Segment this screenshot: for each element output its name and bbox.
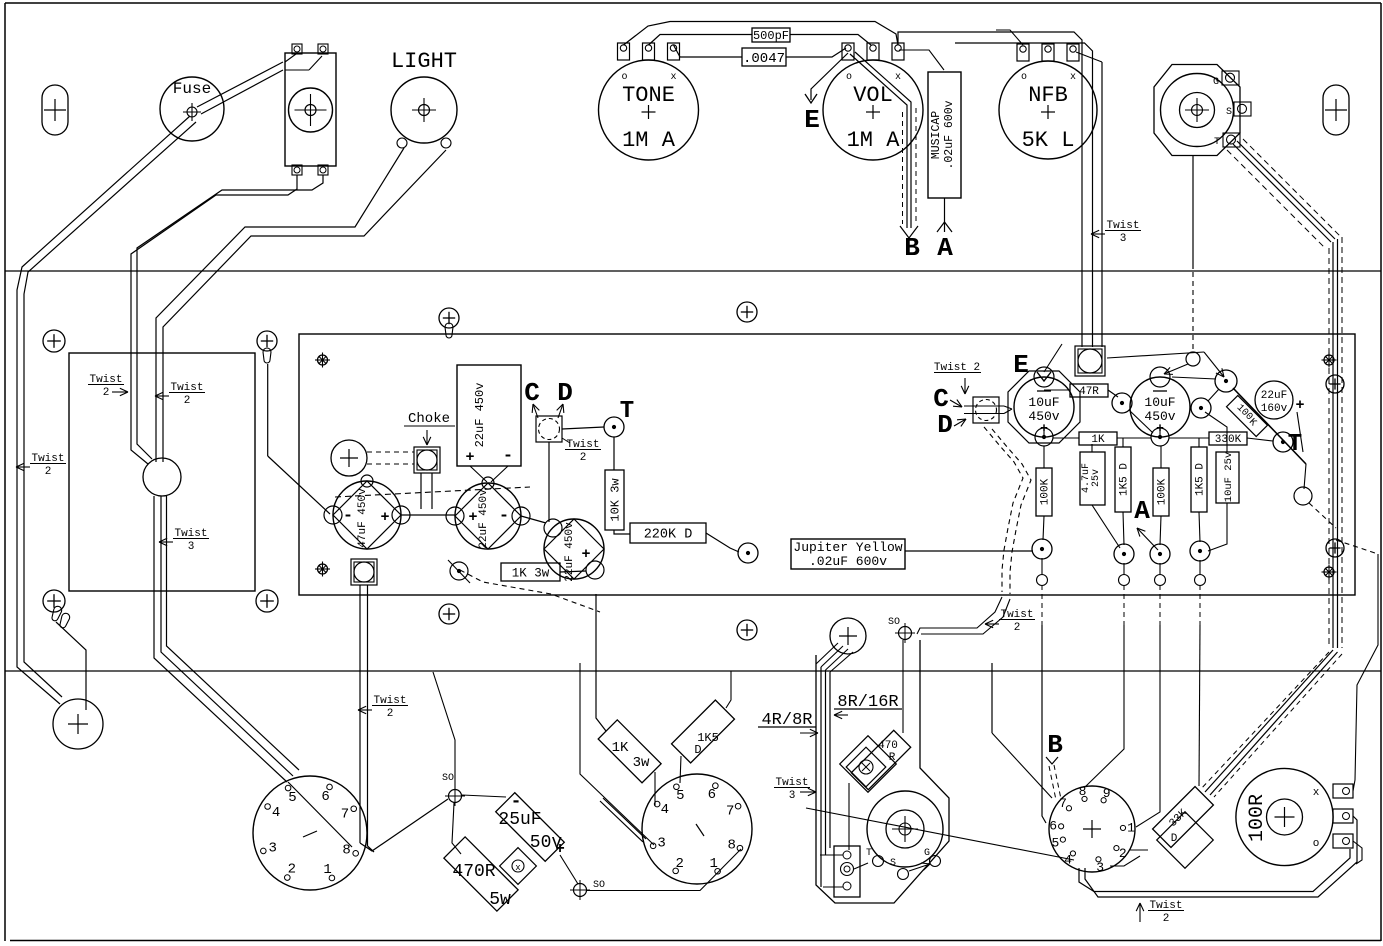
choke leads down (420, 473, 422, 509)
svg-text:A: A (1134, 496, 1150, 526)
wire fuse to mains pair going down-left (17, 116, 190, 704)
V2 pin 5 (674, 784, 680, 790)
svg-text:10K 3w: 10K 3w (609, 478, 623, 522)
svg-text:C: C (524, 378, 540, 408)
resistor 470R diagonal at pilot (851, 730, 910, 789)
svg-text:5: 5 (676, 788, 684, 804)
filter capacitor 47uF 450v (333, 481, 401, 549)
V1 pin 5 (285, 785, 291, 791)
standoff below board left (439, 604, 459, 624)
svg-text:SO: SO (593, 880, 605, 891)
wire switch left-top leads (285, 54, 296, 62)
wire CD square to 10uF cap (1004, 406, 1012, 409)
svg-text:x: x (670, 72, 676, 83)
pilot light terminals (397, 138, 407, 148)
resistor 1K (1079, 432, 1117, 445)
SO solder lug middle (899, 627, 912, 640)
lug of VOL pot (892, 43, 904, 60)
wire NFB lug3 down bundle (1076, 52, 1102, 62)
svg-text:+: + (1295, 397, 1304, 414)
svg-text:100R: 100R (1246, 794, 1269, 842)
svg-text:+: + (468, 509, 477, 526)
100R lug 1 (1333, 784, 1353, 798)
wire junction to T via 100K (1233, 388, 1306, 464)
svg-text:330K: 330K (1215, 434, 1242, 446)
svg-text:E: E (804, 105, 820, 135)
tube socket V3 nine pin (1049, 786, 1135, 872)
wire 1K to third cap terminal (560, 571, 586, 572)
wire grommet NFB bundle square (1075, 346, 1105, 376)
twisted pair C D dashed run (984, 427, 1023, 592)
svg-text:47uF 450v: 47uF 450v (357, 488, 369, 548)
capacitor 10uF 25v (1216, 452, 1239, 503)
wire grommet to tube socket V1 triple (154, 496, 287, 782)
V2 pin 4 (654, 801, 660, 807)
wire TONE lug2 to 500pF (649, 35, 684, 46)
mounting square with screw between (500, 848, 537, 885)
fuse holder F1 (160, 77, 224, 141)
svg-text:1: 1 (1127, 821, 1135, 836)
TONE potentiometer 1M A (599, 60, 699, 160)
wire cap1 to cap2 bottom row (1043, 428, 1045, 438)
wire V2 to bottom-left pair (600, 801, 643, 842)
svg-text:T: T (1214, 137, 1220, 148)
SO solder lug 2 (574, 884, 587, 897)
svg-text:G: G (924, 848, 930, 859)
svg-text:-: - (343, 507, 353, 526)
filter capacitor 22uF 450v (455, 483, 521, 549)
board corner screw top-left (318, 355, 328, 365)
wire switch bottom pair to transformer (131, 175, 297, 464)
resistor 100K diagonal (1226, 395, 1267, 436)
wire 10K to 220K (614, 530, 630, 534)
wire grommet to 10uF cap1 with arrow (1044, 344, 1062, 372)
power transformer mounting screw bottom-right (256, 590, 278, 612)
svg-text:Jupiter Yellow: Jupiter Yellow (793, 540, 902, 555)
wire 47R to junction (1044, 389, 1070, 391)
svg-text:3w: 3w (633, 755, 650, 771)
svg-text:-: - (511, 792, 522, 812)
svg-text:22uF 450v: 22uF 450v (473, 383, 487, 448)
terminal C D square right board (973, 397, 999, 423)
lug of NFB pot (1042, 44, 1054, 61)
wire CD square to T (562, 427, 604, 429)
svg-text:o: o (846, 72, 852, 83)
dashed jack sleeve wire below divider (1192, 272, 1194, 352)
svg-text:o: o (621, 72, 627, 83)
svg-text:6: 6 (1049, 819, 1057, 834)
svg-text:25uF: 25uF (498, 810, 541, 830)
wire 22uF 160v lead (1297, 412, 1303, 452)
V1 key mark (303, 831, 317, 837)
chassis / rear panel divider line (5, 670, 1381, 672)
V1 pin 8 (353, 851, 359, 857)
wire SO2 heater run right (587, 849, 741, 891)
solder terminal below divider left (53, 699, 103, 749)
jack terminal G (1222, 71, 1239, 85)
svg-text:.0047: .0047 (743, 51, 785, 67)
wire TONE lug3 to .0047 (674, 45, 743, 57)
svg-text:25v: 25v (1091, 469, 1102, 487)
resistor 1K 3w diagonal near V2 (598, 720, 661, 783)
lug of VOL pot (842, 43, 854, 60)
svg-text:10uF 25v: 10uF 25v (1223, 452, 1235, 502)
svg-text:S: S (890, 858, 896, 869)
wire 1K5 leads (680, 756, 681, 783)
mounting bracket diamond 470R (840, 736, 897, 793)
power switch terminal (292, 44, 302, 54)
svg-text:7: 7 (1059, 796, 1067, 811)
svg-text:10uF: 10uF (1144, 395, 1175, 410)
V3 pin 5 (1060, 837, 1065, 842)
svg-text:1: 1 (709, 856, 717, 872)
svg-text:D: D (557, 378, 573, 408)
svg-text:100K: 100K (1157, 478, 1169, 505)
V1 pin 4 (265, 804, 271, 810)
svg-text:4: 4 (272, 805, 280, 821)
100R lug 3 (1333, 834, 1353, 848)
jack plate rect (834, 846, 860, 897)
svg-text:47R: 47R (1079, 386, 1099, 398)
speaker wire bundle 4R/8R (820, 667, 822, 887)
wire 22uF box leads to cap below (470, 466, 487, 482)
resistor 1K5 D diagonal near V2 (672, 700, 735, 763)
capacitor 500pF label box (752, 28, 790, 42)
wire bundle to jack plate (820, 854, 843, 856)
dashed pair terminal to choke (367, 451, 414, 453)
junction terminal T on board (604, 417, 624, 437)
pilot lamp assembly plate outline (816, 640, 949, 903)
svg-text:4: 4 (1064, 853, 1072, 868)
V1 pin 2 (285, 875, 291, 881)
svg-text:2: 2 (1163, 913, 1170, 925)
board corner screw bottom-right (1324, 567, 1334, 577)
svg-text:Fuse: Fuse (173, 80, 211, 98)
output attenuator 100R pot (1236, 768, 1333, 865)
V2 pin 8 (737, 845, 743, 851)
svg-text:TONE: TONE (622, 83, 675, 108)
svg-text:G: G (1213, 77, 1219, 88)
V3 pin 1 (1120, 825, 1125, 830)
dashed bias wire (460, 570, 600, 612)
power transformer mounting screw top-right (257, 331, 277, 351)
svg-text:T: T (1288, 431, 1302, 458)
capacitor 4.7uF 25v (1080, 452, 1105, 505)
wire pilot light pair to transformer (156, 148, 404, 462)
svg-text:2: 2 (676, 856, 684, 872)
wire 22uF to third cap (521, 516, 546, 523)
svg-text:1K5 D: 1K5 D (1119, 463, 1131, 496)
board corner screw bottom-left (318, 564, 328, 574)
wire standoff to 47uF terminal (267, 364, 269, 456)
svg-text:-: - (503, 447, 513, 466)
heater pair from grommet down to V1 area (359, 585, 361, 843)
svg-text:SO: SO (888, 617, 900, 628)
wire holes below junctions (1037, 575, 1048, 586)
standoff above board (439, 308, 459, 328)
pilot terminal S (898, 869, 909, 880)
V3 pin 9 (1101, 798, 1106, 803)
wire .0047 to VOL lug1 (786, 48, 846, 57)
twisted pair VOL to node B (850, 54, 907, 228)
filter capacitor 22uF 450v second (544, 519, 604, 579)
svg-text:T: T (866, 848, 872, 859)
V3 pin 4 (1070, 851, 1075, 856)
power transformer outline (69, 353, 255, 591)
wire TONE lug1 to VOL lug3 top run (624, 22, 899, 46)
lug of TONE pot (618, 43, 630, 60)
svg-text:o: o (1313, 838, 1320, 850)
svg-text:6: 6 (708, 787, 716, 803)
wire jupiter to 100K junction (905, 550, 1033, 552)
V1 pin 7 (351, 806, 357, 812)
svg-text:9: 9 (1103, 786, 1111, 801)
standoff below board right (737, 620, 757, 640)
power transformer mounting screw top-left (43, 330, 65, 352)
V2 pin 6 (713, 783, 719, 789)
capacitor MUSICAP .02uF 600v (928, 72, 961, 198)
capacitor 10uF 450v second (1130, 377, 1190, 437)
standoff crimp (445, 323, 453, 338)
svg-text:1: 1 (323, 862, 331, 878)
jack terminal S (1234, 102, 1251, 116)
V2 key mark (696, 824, 704, 836)
svg-text:3: 3 (789, 790, 796, 802)
wire pilot S to G (909, 864, 930, 871)
svg-text:470R: 470R (452, 862, 495, 882)
svg-text:8: 8 (1079, 784, 1087, 799)
wire 100R lug3 to bottom run (1353, 841, 1362, 864)
wire T to 10K resistor (613, 437, 615, 470)
wire feeder to V2 pin 3 (580, 663, 654, 845)
svg-text:3: 3 (1120, 233, 1127, 245)
svg-text:+: + (465, 449, 474, 466)
wire jack sleeve down (1192, 156, 1194, 270)
front panel / chassis divider line (5, 270, 1381, 272)
choke mounting square (414, 447, 440, 473)
resistor 470R 5w diagonal (444, 837, 518, 911)
wire CD terminal to third cap (548, 442, 550, 522)
svg-text:B: B (1047, 730, 1063, 760)
svg-text:5: 5 (1051, 835, 1059, 850)
wire 47uF plus to 22uF minus (401, 514, 455, 516)
V2 pin 1 (715, 868, 721, 874)
svg-text:2: 2 (45, 466, 52, 478)
power transformer mounting screw bottom-left (43, 590, 65, 612)
svg-text:3: 3 (268, 840, 276, 856)
capacitor 25uF 50v diagonal (496, 793, 565, 862)
svg-text:D: D (694, 743, 701, 757)
svg-text:1K: 1K (1091, 434, 1105, 446)
lug of NFB pot (1017, 44, 1029, 61)
arrows C D (533, 404, 538, 418)
svg-text:2: 2 (288, 862, 296, 878)
V2 pin 7 (735, 803, 741, 809)
svg-text:S: S (1226, 107, 1232, 118)
mounting square with screw 470R (846, 747, 886, 787)
resistor 10K 3w (605, 470, 624, 530)
V3 pin 6 (1059, 824, 1064, 829)
lug of NFB pot (1067, 44, 1079, 61)
resistor 33K D diagonal (1153, 787, 1214, 848)
wire T junction to right bundle (1294, 487, 1312, 505)
terminal C D square on board (536, 416, 562, 442)
transformer terminal crimp (263, 348, 271, 363)
wire VOL lug1 to E arrow (811, 53, 848, 100)
junction circle jupiter (738, 543, 758, 563)
svg-text:5: 5 (288, 790, 296, 806)
wire right bundle standoffs (1326, 375, 1344, 393)
svg-text:MUSICAP: MUSICAP (930, 111, 943, 159)
svg-text:2: 2 (387, 708, 394, 720)
svg-text:x: x (515, 863, 520, 873)
svg-text:2: 2 (1119, 846, 1127, 861)
resistor 220K D (630, 523, 706, 543)
svg-text:2: 2 (103, 387, 110, 399)
V3 pin 3 (1096, 857, 1101, 862)
capacitor 10uF 450v first (1008, 371, 1080, 443)
resistor 1K 3w (501, 563, 560, 581)
wire 220K to junction (706, 533, 739, 552)
svg-text:o: o (1021, 72, 1027, 83)
resistor 100K vertical second (1153, 468, 1169, 516)
lug of TONE pot (668, 43, 680, 60)
V1 pin 6 (327, 784, 333, 790)
svg-text:T: T (620, 398, 634, 425)
twisted pair jack tip to chassis right bundle (1233, 144, 1331, 242)
power switch S1 (285, 53, 336, 166)
long bottom run V3 pin4 to 100R (1079, 849, 1350, 892)
power switch terminal (318, 44, 328, 54)
svg-text:D: D (1171, 833, 1178, 845)
svg-text:.02uF 600v: .02uF 600v (943, 100, 956, 169)
grommet square below 47uF (351, 559, 377, 585)
svg-text:2: 2 (580, 452, 587, 464)
svg-text:E: E (1013, 350, 1029, 380)
svg-text:x: x (895, 72, 901, 83)
twisted pair right bundle to 33K (1205, 650, 1333, 792)
wires from board to 9pin socket (992, 733, 1052, 798)
wire VOL lug3 to chassis bundle (898, 32, 1082, 347)
wire V3 pin2 to 33K (1129, 849, 1148, 851)
svg-text:x: x (1070, 72, 1076, 83)
board corner screw top-right (1324, 355, 1334, 365)
svg-text:500pF: 500pF (753, 29, 789, 43)
capacitor Jupiter Yellow .02uF 600v (791, 539, 905, 569)
svg-text:470: 470 (878, 740, 898, 752)
V3 pin 2 (1114, 845, 1119, 850)
svg-text:5w: 5w (489, 890, 511, 910)
wire 470R bracket down to jack plate (848, 783, 850, 850)
wire leads components top (1043, 446, 1045, 468)
output jack J1 (1161, 74, 1234, 147)
dashed wire across caps (335, 487, 530, 497)
wire 500pF to VOL lug2 (790, 35, 871, 46)
wire jack plate to V3 long diagonal (806, 808, 1074, 860)
svg-text:+: + (581, 546, 590, 563)
wire MUSICAP to node A (944, 198, 946, 232)
junction circles bottom row (1032, 539, 1052, 559)
wire sleeve circle to second cap arrow (1164, 364, 1188, 374)
V2 pin 2 (673, 868, 679, 874)
svg-text:160v: 160v (1261, 403, 1288, 415)
svg-text:22uF: 22uF (1261, 390, 1287, 402)
power switch terminal (292, 165, 302, 175)
pilot terminal T (873, 856, 884, 867)
svg-text:22uF 450v: 22uF 450v (564, 522, 576, 582)
wire 100R lug1 up (1336, 540, 1378, 554)
lug of VOL pot (867, 43, 879, 60)
wire SO down to 470R (902, 640, 904, 733)
svg-text:B: B (904, 233, 920, 263)
resistor 47R (1070, 384, 1108, 397)
oval mounting hole left (42, 85, 68, 135)
V1 pin 1 (329, 875, 335, 881)
svg-text:SO: SO (442, 773, 454, 784)
V3 pin 7 (1066, 806, 1071, 811)
svg-text:220K D: 220K D (644, 528, 693, 543)
oval mounting hole right (1323, 85, 1349, 135)
svg-text:1K5 D: 1K5 D (1195, 463, 1207, 496)
svg-text:3: 3 (1096, 860, 1104, 875)
svg-text:22uF 450v: 22uF 450v (478, 489, 490, 549)
svg-text:Choke: Choke (408, 411, 450, 427)
tube socket V2 octal (642, 774, 752, 884)
wire cap2 row to 330K to T (1169, 437, 1209, 439)
wire VOL lug3 to MUSICAP (899, 50, 944, 70)
V2 pin 3 (650, 843, 656, 849)
svg-text:7: 7 (726, 804, 734, 820)
wire jack plate to pilot T (854, 863, 868, 869)
V1 pin 3 (261, 848, 267, 854)
transformer wire grommet (143, 458, 181, 496)
tube socket V1 octal (253, 776, 367, 890)
arrow into top-right junction (1107, 352, 1204, 358)
svg-text:1M A: 1M A (622, 128, 676, 153)
chassis outline border (5, 2, 1381, 4)
transformer bottom crimp terminals (50, 605, 63, 622)
wire 25uF minus to SO1 (462, 795, 506, 797)
svg-text:D: D (937, 410, 953, 440)
resistor 330K (1209, 432, 1247, 445)
twisted pair to node B (1049, 766, 1056, 800)
svg-text:1K 3w: 1K 3w (512, 566, 550, 580)
capacitor .0047 label box (742, 48, 786, 66)
mounting bracket diamond 33K (1157, 812, 1214, 869)
VOL potentiometer 1M A (823, 60, 923, 160)
svg-text:x: x (1313, 787, 1320, 799)
main circuit board outline (299, 334, 1355, 595)
svg-text:1M A: 1M A (847, 128, 901, 153)
svg-text:2: 2 (184, 395, 191, 407)
svg-text:7: 7 (341, 807, 349, 823)
V3 pin 8 (1082, 796, 1087, 801)
SO solder lug 1 (449, 790, 462, 803)
wire 25uF plus to SO2 (560, 855, 578, 884)
svg-text:A: A (937, 233, 953, 263)
svg-text:-: - (499, 507, 509, 526)
wire fuse to power switch (197, 62, 283, 107)
lug of TONE pot (643, 43, 655, 60)
svg-text:.02uF 600v: .02uF 600v (809, 554, 887, 569)
pilot lamp socket (867, 791, 943, 867)
resistor 100K vertical first (1036, 468, 1052, 516)
solder terminal with plus left of choke (331, 440, 367, 476)
power switch terminal (318, 165, 328, 175)
standoff above board right (737, 302, 757, 322)
svg-text:100K: 100K (1040, 478, 1052, 505)
svg-text:+: + (380, 509, 389, 526)
